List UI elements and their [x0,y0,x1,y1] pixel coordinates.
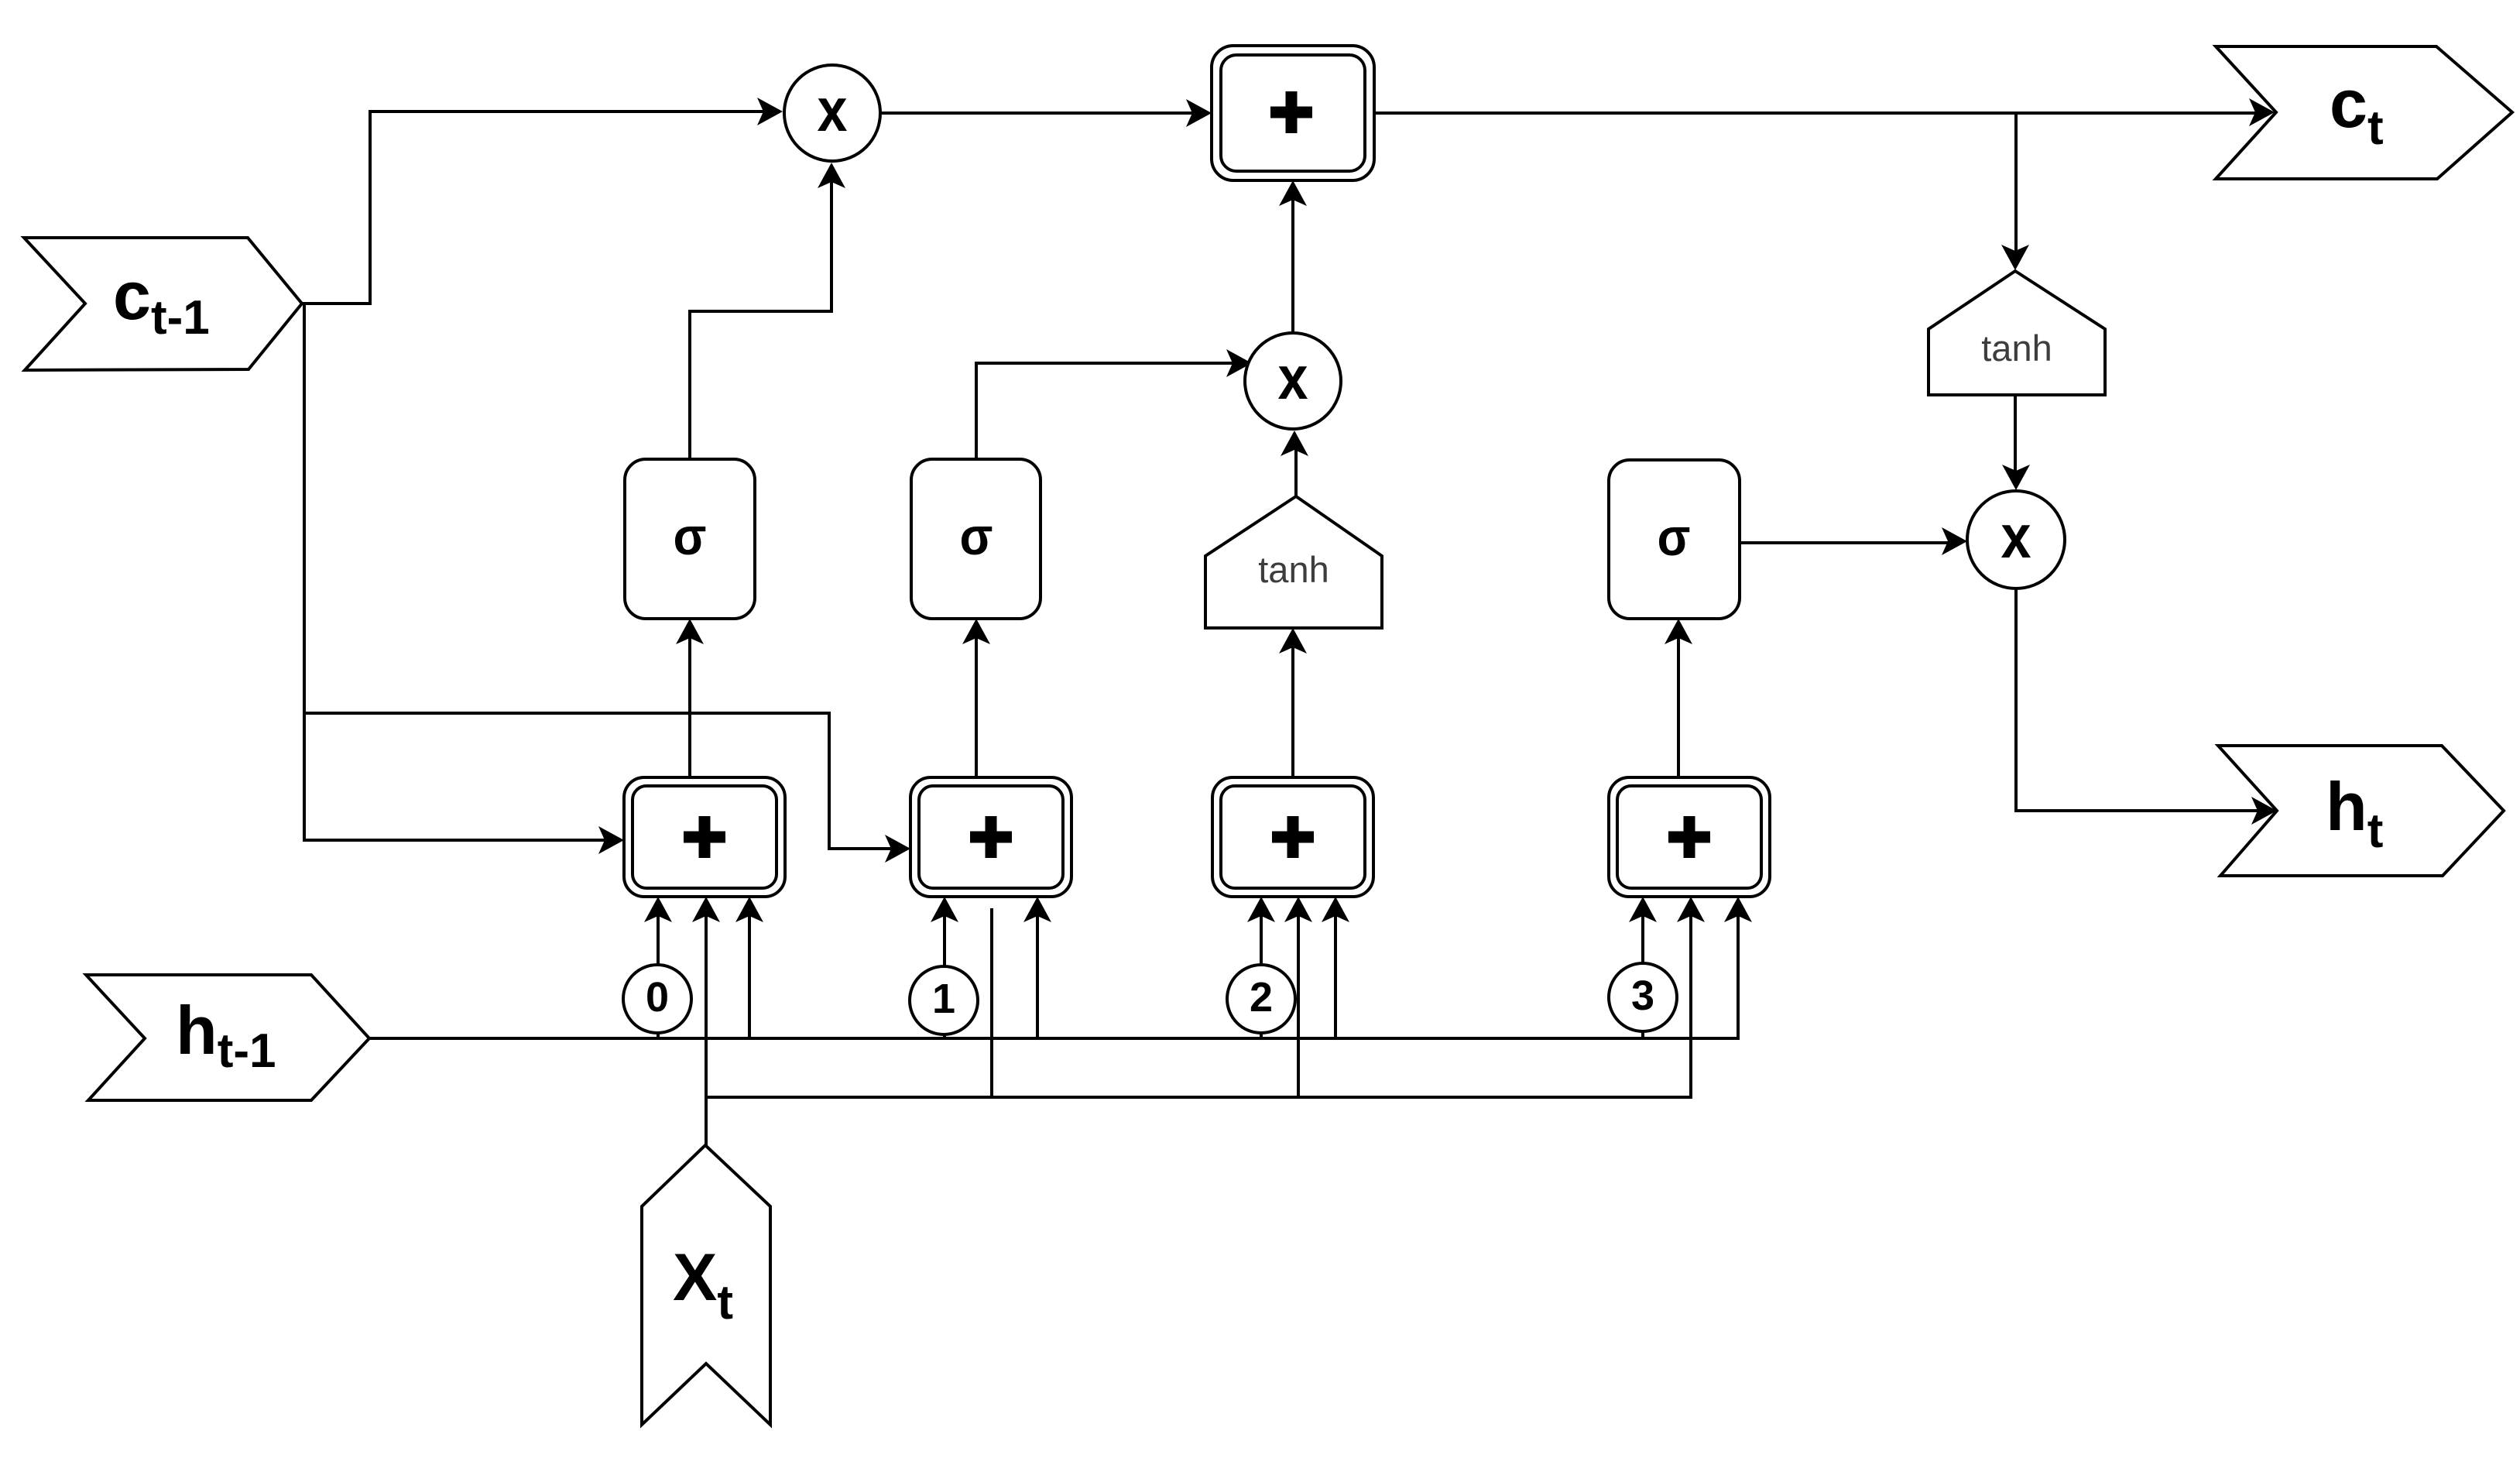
arrowhead up into box3 right [1322,897,1349,922]
arrowhead into + box2 left [885,835,910,863]
banner c_t [2216,46,2512,179]
arrowhead up into middle x circle bottom [1281,431,1308,456]
wire: X_t line riser to box3 middle [1297,908,1300,1097]
numbered circle 1 [910,966,978,1034]
arrowhead into c_t notch [2249,98,2275,126]
arrowhead into + top box [1186,99,1212,127]
wire: sigma3 to right x circle [1740,541,1956,544]
banner h_t-1 [86,975,369,1100]
wire: sigma2 top elbow into middle x circle [976,363,1240,459]
numbered circle 3 [1609,963,1677,1031]
arrowhead into middle x circle [1226,349,1252,377]
svg-text:tanh: tanh [1981,328,2052,369]
arrowhead into h_t notch [2251,797,2277,825]
plus box 4 outer [1609,777,1770,897]
sigma box 1 [625,459,755,619]
svg-text:3: 3 [1631,973,1654,1019]
arrowhead down into right x circle top [2002,465,2030,490]
plus glyph box 2 [970,832,1012,843]
wire: X_t banner vertical up to box1 middle [705,908,708,1145]
wire: h_t-1 distribution line [369,908,1738,1038]
x circle right [1967,491,2065,588]
tanh pentagon right [1929,271,2105,395]
plus box top outer [1212,46,1374,180]
wire: branch from vertical to + box 2 [304,713,899,849]
arrowhead into + box1 [598,826,624,854]
arrowhead up into box2 right [1023,897,1051,922]
wire: + box4 up to sigma3 [1677,630,1680,777]
sigma box 2 [911,459,1041,619]
wire: h line riser to box1 (through circle 0) [657,908,660,1038]
banner X_t [642,1145,770,1425]
arrowhead up into sigma1 [676,619,704,644]
arrowhead up into sigma3 [1665,619,1692,644]
wire: + box3 up to middle tanh [1291,640,1294,777]
plus box 3 inner [1221,786,1365,888]
wire: h line riser to box1 right [748,908,751,1038]
wire: branch down to right tanh [2014,113,2018,259]
svg-text:tanh: tanh [1258,549,1329,590]
sigma box 3 [1609,460,1740,619]
svg-text:σ: σ [674,507,707,566]
svg-text:x: x [2001,502,2031,571]
wire: h line riser to box4 (through circle 3) [1641,908,1644,1038]
arrowhead up into box3 circle2 [1247,897,1275,922]
plus box 1 outer [624,777,785,897]
arrowhead into x circle 1 [757,98,783,125]
plus box 4 inner [1617,786,1761,888]
x circle top left [784,65,880,161]
arrowhead into right x circle [1942,527,1967,555]
banner c_t-1 [24,238,302,370]
svg-text:1: 1 [932,976,955,1022]
numbered circle 0 [623,965,691,1033]
wire: x circle 1 to + top box [880,112,1200,115]
wire: + box1 up to sigma1 [688,630,691,777]
plus box top inner [1221,55,1365,171]
x circle middle [1245,333,1341,429]
tanh pentagon middle [1205,496,1382,628]
wire: c_t-1 tip down then right into + box 1 [304,304,612,840]
arrowhead up into middle tanh [1279,628,1307,654]
arrowhead up into box1 right [735,897,763,922]
plus glyph box 3 [1272,832,1314,843]
arrowhead up into sigma2 [962,619,990,644]
plus box 2 inner [919,786,1063,888]
arrowhead up into box1 mid [692,897,720,922]
wire: middle x circle up into + top box [1291,192,1294,333]
plus glyph box 4 [1668,832,1710,843]
wire: + box2 up to sigma2 [975,630,978,777]
plus glyph top box [1270,107,1312,118]
svg-text:σ: σ [960,507,993,566]
plus glyph box 1 [684,832,725,843]
wire: middle tanh to middle x circle [1294,442,1298,496]
numbered circle 2 [1227,965,1295,1033]
wire: h line riser to box2 (through circle 1) [943,908,946,1038]
banner h_t [2218,746,2504,876]
arrowhead down into right tanh top [2001,245,2029,270]
arrowhead up into box2 circle1 [931,897,958,922]
svg-text:2: 2 [1250,974,1273,1021]
arrowhead up into box4 mid [1677,897,1705,922]
wire: + top box to c_t banner [1374,112,2263,115]
arrowhead up into x circle 1 bottom [818,163,845,188]
plus box 1 inner [633,786,777,888]
plus box 2 outer [910,777,1071,897]
arrowhead up into box3 mid [1284,897,1312,922]
arrowhead up into box4 circle3 [1629,897,1657,922]
wire: h line riser to box3 (through circle 2) [1260,908,1263,1038]
wire: c_t-1 tip to top-left x circle [302,112,771,304]
arrowhead up into box4 right [1724,897,1752,922]
wire: X_t line riser to box2 middle [990,908,993,1097]
wire: right x circle down and right into h_t banner [2016,588,2265,811]
wire: X_t distribution line [706,908,1691,1097]
wire: h line riser to box3 right [1334,908,1337,1038]
wire: right tanh to right x circle [2014,395,2017,479]
plus box 3 outer [1212,777,1373,897]
svg-text:σ: σ [1658,508,1691,567]
wire: sigma1 top elbow up into x circle 1 [690,175,831,459]
svg-text:0: 0 [646,974,669,1021]
arrowhead up into + top box bottom [1279,180,1307,206]
arrowhead up into box1 circle0 [644,897,672,922]
svg-text:x: x [1278,343,1308,412]
svg-text:x: x [818,75,848,144]
wire: h line riser to box2 right [1036,908,1039,1038]
